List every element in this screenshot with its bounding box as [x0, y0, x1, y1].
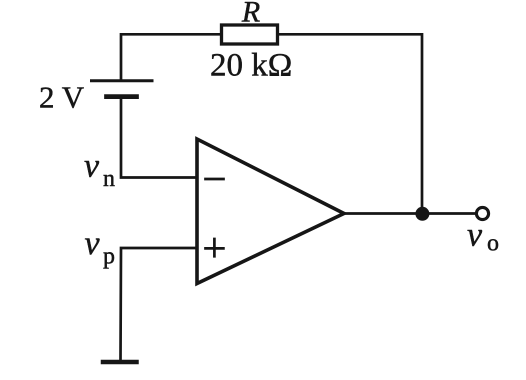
node output junction dot [415, 207, 429, 221]
svg-text:v: v [84, 148, 100, 185]
ground [103, 360, 137, 365]
svg-text:p: p [103, 244, 115, 270]
op-amp U1 [197, 139, 344, 284]
wire battery to inverting input [121, 99, 196, 178]
resistor R [222, 25, 278, 44]
svg-text:v: v [467, 217, 483, 254]
battery V1 short plate [107, 94, 137, 99]
terminal v_o open circle [476, 207, 488, 219]
op-amp U1 plus pin mark [206, 239, 224, 256]
wire non-inverting input [121, 248, 197, 362]
svg-text:2 V: 2 V [39, 80, 85, 115]
wire output [344, 212, 475, 215]
wire top-left feedback segment [121, 34, 222, 79]
svg-text:R: R [241, 0, 260, 29]
svg-text:o: o [487, 231, 499, 257]
svg-text:20 kΩ: 20 kΩ [210, 48, 292, 84]
svg-text:v: v [85, 225, 101, 262]
svg-text:n: n [103, 166, 115, 192]
op-amp U1 minus pin mark [206, 178, 224, 181]
wire top-right feedback segment [278, 34, 423, 213]
battery V1 long plate [92, 79, 153, 82]
